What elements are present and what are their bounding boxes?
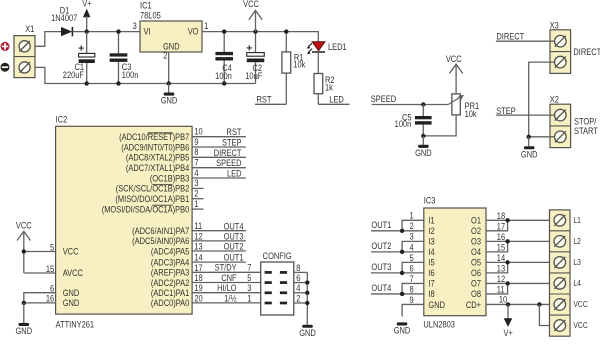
svg-text:SPEED: SPEED xyxy=(371,95,396,105)
IC2 pin 19 net HI/LO xyxy=(151,284,261,299)
junction C1 ground xyxy=(85,81,89,85)
IC3 pins 18/17 to terminal L1 xyxy=(486,211,554,231)
svg-text:VCC: VCC xyxy=(573,321,588,331)
svg-text:IC2: IC2 xyxy=(56,115,68,125)
svg-text:7: 7 xyxy=(247,263,252,273)
svg-text:1k: 1k xyxy=(325,83,334,93)
svg-text:GND: GND xyxy=(63,288,80,298)
svg-text:GND: GND xyxy=(428,300,445,310)
resistor R1 10k xyxy=(282,32,306,105)
svg-text:ULN2803: ULN2803 xyxy=(423,320,455,330)
IC2 pin 11 net OUT4 xyxy=(132,222,246,236)
LED LED1 xyxy=(307,42,348,54)
junction X2 ground xyxy=(527,135,531,139)
svg-text:12: 12 xyxy=(194,232,203,242)
svg-text:2: 2 xyxy=(410,222,415,232)
power VCC IC2 xyxy=(16,221,32,273)
svg-text:18: 18 xyxy=(194,273,203,283)
svg-text:6: 6 xyxy=(410,264,415,274)
svg-text:(ADC5/AIN0)PA6: (ADC5/AIN0)PA6 xyxy=(132,237,190,247)
svg-text:16: 16 xyxy=(46,294,55,304)
ground X2/X3 xyxy=(521,137,538,160)
svg-text:X2: X2 xyxy=(550,95,560,105)
svg-text:11: 11 xyxy=(497,285,505,295)
svg-text:VO: VO xyxy=(188,27,199,37)
IC3 pins 1/2 net OUT1 xyxy=(371,211,424,233)
IC3 pin 9 GND xyxy=(402,295,424,316)
node SPEED xyxy=(371,95,449,105)
svg-text:3: 3 xyxy=(247,284,252,294)
junction C2 top xyxy=(253,29,257,33)
wire X1.1 to D1 xyxy=(35,32,61,47)
CONFIG pin 4 xyxy=(294,284,308,294)
svg-text:VCC: VCC xyxy=(243,0,259,9)
svg-text:(ADC4)PA5: (ADC4)PA5 xyxy=(151,247,190,257)
IC2 pin 10 net RST xyxy=(119,127,246,142)
IC2 pin 3 (SCK/SCL/ xyxy=(116,179,204,194)
IC2 pin 6 GND xyxy=(24,284,80,303)
power V+ down xyxy=(504,304,514,338)
junction IC1 ground xyxy=(167,81,171,85)
svg-text:(ADC9/INT0/T0)PB6: (ADC9/INT0/T0)PB6 xyxy=(121,143,190,153)
wire PR1 to C5 bottom xyxy=(423,115,456,136)
IC2 pin 20 net 1/½ xyxy=(151,294,261,309)
svg-text:(ADC7/XTAL1)PB4: (ADC7/XTAL1)PB4 xyxy=(126,163,190,173)
svg-text:1/½: 1/½ xyxy=(224,294,237,304)
svg-text:I6: I6 xyxy=(428,269,435,279)
node - supply terminal xyxy=(1,63,10,72)
svg-text:(MOSI/DI/SDA/OC1A)PB0: (MOSI/DI/SDA/OC1A)PB0 xyxy=(102,205,190,215)
IC2 pin 13 net OUT2 xyxy=(151,242,246,256)
svg-text:I3: I3 xyxy=(428,237,435,247)
svg-text:OUT4: OUT4 xyxy=(224,222,244,232)
svg-text:STEP: STEP xyxy=(222,138,242,148)
svg-text:13: 13 xyxy=(497,264,506,274)
node RST xyxy=(255,95,286,105)
svg-text:O2: O2 xyxy=(471,227,481,237)
svg-text:OUT1: OUT1 xyxy=(371,220,391,230)
svg-text:SPEED: SPEED xyxy=(216,159,241,169)
svg-text:DIRECT: DIRECT xyxy=(214,148,242,158)
junction C3 top xyxy=(116,29,120,33)
junction CD+ V+ xyxy=(506,302,510,306)
svg-text:5: 5 xyxy=(247,273,252,283)
svg-text:O6: O6 xyxy=(471,269,481,279)
junction C4 ground xyxy=(222,81,226,85)
svg-text:OUT3: OUT3 xyxy=(224,232,244,242)
junction C5 bottom xyxy=(421,134,425,138)
svg-text:X3: X3 xyxy=(550,21,560,31)
svg-text:(OC1B)PB3: (OC1B)PB3 xyxy=(150,174,190,184)
svg-text:18: 18 xyxy=(497,211,506,221)
svg-text:1N4007: 1N4007 xyxy=(51,14,78,24)
capacitor C5 100n xyxy=(395,105,432,136)
junction R1 top xyxy=(284,29,288,33)
svg-text:15: 15 xyxy=(46,264,55,274)
svg-text:3: 3 xyxy=(410,232,415,242)
IC2 pin 9 net STEP xyxy=(121,137,246,152)
svg-text:O4: O4 xyxy=(471,248,481,258)
junction V+ node xyxy=(85,29,89,33)
diode D1 1N4007 xyxy=(51,6,78,36)
connector X2 xyxy=(550,95,571,148)
wire VO rail xyxy=(202,32,318,43)
svg-text:VI: VI xyxy=(144,27,151,37)
wire D1 to IC1 VI xyxy=(72,31,140,33)
svg-text:4: 4 xyxy=(410,243,415,253)
svg-text:STOP/: STOP/ xyxy=(574,117,597,127)
wire CONFIG ground bus xyxy=(306,272,308,324)
wire LED1 to R2 xyxy=(317,52,319,74)
ground C5 xyxy=(415,136,432,158)
IC2 pin 15 AVCC xyxy=(24,264,83,278)
svg-text:7: 7 xyxy=(410,274,415,284)
svg-text:(ADC2)PA2: (ADC2)PA2 xyxy=(151,278,190,288)
svg-text:I7: I7 xyxy=(428,279,435,289)
svg-text:I2: I2 xyxy=(428,227,435,237)
svg-text:16: 16 xyxy=(497,232,506,242)
svg-text:GND: GND xyxy=(15,327,32,337)
svg-text:LED: LED xyxy=(329,95,344,105)
svg-text:GND: GND xyxy=(161,96,178,106)
svg-text:V+: V+ xyxy=(504,328,514,338)
svg-text:(ADC3)PA4: (ADC3)PA4 xyxy=(151,258,190,268)
svg-text:O3: O3 xyxy=(471,237,481,247)
svg-text:3: 3 xyxy=(194,179,199,189)
svg-text:4: 4 xyxy=(194,168,199,178)
IC2 pin 2 (MISO/DO/OC1A)PB1 xyxy=(115,189,203,204)
wire X1.2 to ground rail xyxy=(35,67,256,83)
potentiometer PR1 10k xyxy=(448,94,479,119)
junction IC2 VCC xyxy=(22,249,26,253)
svg-text:GND: GND xyxy=(521,150,538,160)
ground IC3 xyxy=(397,322,408,325)
svg-text:7: 7 xyxy=(194,158,199,168)
svg-text:14: 14 xyxy=(497,253,506,263)
IC2 pin 4 net LED xyxy=(150,168,246,183)
svg-text:6: 6 xyxy=(296,273,301,283)
svg-text:(ADC6/AIN1)PA7: (ADC6/AIN1)PA7 xyxy=(132,226,190,236)
IC2 pin 1 (MOSI/DI/SDA/ xyxy=(102,199,204,214)
svg-text:GND: GND xyxy=(299,328,316,338)
svg-text:1: 1 xyxy=(194,199,199,209)
CONFIG pin 2 xyxy=(294,294,308,304)
IC2 pin 14 net OUT1 xyxy=(151,253,246,267)
svg-text:OUT2: OUT2 xyxy=(371,242,391,252)
junction IC2 GND xyxy=(22,301,26,305)
svg-text:I1: I1 xyxy=(428,216,435,226)
junction CD+ VCC branch xyxy=(537,302,541,306)
svg-text:2: 2 xyxy=(296,294,301,304)
junction C4 top xyxy=(222,29,226,33)
capacitor C2 10uF xyxy=(245,32,264,84)
wire X3.2 to ground bus xyxy=(529,62,555,137)
svg-text:19: 19 xyxy=(194,284,203,294)
svg-text:L4: L4 xyxy=(573,278,581,288)
svg-text:VCC: VCC xyxy=(63,247,79,257)
IC IC3 ULN2803 body xyxy=(423,196,486,330)
svg-text:L3: L3 xyxy=(573,257,581,267)
node STEP input xyxy=(496,107,555,117)
connector X1 xyxy=(14,24,35,77)
IC2 pin 17 net ST/DY xyxy=(151,263,261,278)
svg-text:VCC: VCC xyxy=(573,300,588,310)
IC3 pin 10 CD+ net xyxy=(486,295,554,305)
svg-text:17: 17 xyxy=(194,263,203,273)
svg-text:(SCK/SCL/OC1B)PB2: (SCK/SCL/OC1B)PB2 xyxy=(116,184,190,194)
IC3 pins 16/15 to terminal L2 xyxy=(486,232,554,252)
svg-text:8: 8 xyxy=(410,285,415,295)
svg-text:10k: 10k xyxy=(293,60,306,70)
power V+ xyxy=(82,0,92,32)
IC2 pin 8 net DIRECT xyxy=(126,148,246,163)
svg-text:2: 2 xyxy=(163,51,168,61)
svg-text:ATTINY261: ATTINY261 xyxy=(56,320,95,330)
svg-text:9: 9 xyxy=(194,137,199,147)
svg-text:ST/DY: ST/DY xyxy=(215,263,238,273)
svg-text:5: 5 xyxy=(410,253,415,263)
svg-text:220uF: 220uF xyxy=(63,70,84,80)
svg-text:O1: O1 xyxy=(471,216,481,226)
svg-text:DIRECT: DIRECT xyxy=(573,47,600,57)
svg-text:8: 8 xyxy=(194,148,199,158)
svg-text:(ADC8/XTAL2)PB5: (ADC8/XTAL2)PB5 xyxy=(126,153,190,163)
svg-text:X1: X1 xyxy=(25,24,35,34)
svg-text:2: 2 xyxy=(194,189,199,199)
svg-text:1: 1 xyxy=(410,211,415,221)
regulator IC1 78L05 xyxy=(133,1,209,61)
svg-text:1: 1 xyxy=(204,21,209,31)
svg-text:3: 3 xyxy=(133,21,138,31)
junction CONFIG 2 xyxy=(305,301,309,305)
svg-text:100n: 100n xyxy=(122,70,139,80)
svg-text:(ADC1)PA1: (ADC1)PA1 xyxy=(151,288,190,298)
junction CONFIG 4 xyxy=(305,291,309,295)
svg-text:L2: L2 xyxy=(573,236,581,246)
svg-text:12: 12 xyxy=(497,274,506,284)
connector output terminal block xyxy=(550,210,571,336)
svg-text:GND: GND xyxy=(63,299,80,309)
svg-text:78L05: 78L05 xyxy=(140,11,161,21)
resistor R2 1k xyxy=(314,74,335,94)
node + supply terminal xyxy=(1,42,10,51)
header CONFIG xyxy=(261,251,294,315)
svg-text:O8: O8 xyxy=(471,290,481,300)
svg-text:RST: RST xyxy=(227,128,242,138)
IC3 pins 12/11 to terminal L4 xyxy=(486,274,554,294)
wire ground bus to X2.2 xyxy=(529,136,555,138)
wire IC1 pin2 to rail xyxy=(168,52,170,84)
ground below IC1 xyxy=(161,84,178,106)
svg-text:AVCC: AVCC xyxy=(63,269,83,279)
svg-text:I8: I8 xyxy=(428,290,435,300)
node LED xyxy=(318,94,349,105)
IC2 pin 12 net OUT3 xyxy=(132,232,246,246)
svg-text:O7: O7 xyxy=(471,279,481,289)
svg-text:GND: GND xyxy=(394,326,411,336)
svg-text:13: 13 xyxy=(194,242,203,252)
connector X3 xyxy=(550,21,571,74)
svg-text:OUT4: OUT4 xyxy=(371,284,391,294)
svg-text:L1: L1 xyxy=(573,215,581,225)
svg-text:CONFIG: CONFIG xyxy=(263,251,292,261)
svg-text:(MISO/DO/OC1A)PB1: (MISO/DO/OC1A)PB1 xyxy=(115,194,189,204)
svg-text:LED: LED xyxy=(227,169,242,179)
IC3 pins 3/4 net OUT2 xyxy=(371,232,424,254)
capacitor C1 220uF xyxy=(63,32,95,84)
svg-text:(ADC10/RESET)PB7: (ADC10/RESET)PB7 xyxy=(119,132,190,142)
svg-text:9: 9 xyxy=(410,295,415,305)
svg-text:15: 15 xyxy=(497,243,506,253)
junction SPEED/C5 xyxy=(421,102,425,106)
svg-text:OUT3: OUT3 xyxy=(371,263,391,273)
ground CONFIG xyxy=(302,325,313,328)
capacitor C3 100n xyxy=(110,32,139,84)
svg-text:17: 17 xyxy=(497,222,506,232)
svg-text:CNF: CNF xyxy=(221,273,236,283)
svg-text:IC1: IC1 xyxy=(140,1,152,11)
capacitor C4 100n xyxy=(215,32,233,84)
svg-text:RST: RST xyxy=(257,95,272,105)
label STOP/START xyxy=(574,117,598,136)
svg-text:I4: I4 xyxy=(428,248,435,258)
svg-text:VCC: VCC xyxy=(446,54,462,64)
svg-text:10k: 10k xyxy=(465,109,478,119)
svg-text:I5: I5 xyxy=(428,258,435,268)
svg-text:10: 10 xyxy=(194,127,203,137)
svg-text:(ADC0)PA0: (ADC0)PA0 xyxy=(151,299,190,309)
svg-text:6: 6 xyxy=(50,284,55,294)
IC2 pin 16 GND xyxy=(24,294,80,308)
IC2 pin 7 net SPEED xyxy=(126,158,246,173)
svg-text:VCC: VCC xyxy=(16,221,32,231)
node DIRECT input xyxy=(496,32,555,42)
IC2 pin 18 net CNF xyxy=(151,273,261,288)
IC2 pin 5 VCC xyxy=(24,243,79,257)
svg-text:10uF: 10uF xyxy=(245,71,262,81)
svg-text:14: 14 xyxy=(194,253,203,263)
svg-text:11: 11 xyxy=(194,222,202,232)
svg-text:5: 5 xyxy=(50,243,55,253)
svg-text:GND: GND xyxy=(415,148,432,158)
svg-text:4: 4 xyxy=(296,284,301,294)
ground IC2 xyxy=(15,303,32,336)
IC3 pins 7/8 net OUT4 xyxy=(371,274,424,296)
svg-text:LED1: LED1 xyxy=(328,42,347,52)
svg-text:8: 8 xyxy=(296,263,301,273)
junction C3 ground xyxy=(116,81,120,85)
svg-text:HI/LO: HI/LO xyxy=(217,284,237,294)
power VCC PR1 xyxy=(446,54,463,93)
svg-text:OUT1: OUT1 xyxy=(224,253,244,263)
svg-text:1: 1 xyxy=(247,294,252,304)
IC3 pins 5/6 net OUT3 xyxy=(371,253,424,275)
wire CD+ to VCC terminal 2 xyxy=(539,304,554,325)
CONFIG pin 8 xyxy=(294,263,308,273)
svg-text:START: START xyxy=(574,126,598,136)
svg-text:(AREF)PA3: (AREF)PA3 xyxy=(151,268,190,278)
svg-text:100n: 100n xyxy=(215,71,232,81)
CONFIG pin 6 xyxy=(294,273,308,283)
svg-text:IC3: IC3 xyxy=(424,196,436,206)
IC3 pins 14/13 to terminal L3 xyxy=(486,253,554,273)
svg-text:DIRECT: DIRECT xyxy=(496,32,524,42)
svg-text:O5: O5 xyxy=(471,258,481,268)
power VCC main xyxy=(243,0,262,32)
svg-text:OUT2: OUT2 xyxy=(224,242,244,252)
junction CONFIG 6 xyxy=(305,280,309,284)
svg-text:V+: V+ xyxy=(82,0,92,8)
svg-text:20: 20 xyxy=(194,294,203,304)
svg-text:100n: 100n xyxy=(395,119,412,129)
IC IC2 ATTINY261 body xyxy=(56,115,193,330)
svg-text:CD+: CD+ xyxy=(466,300,481,310)
